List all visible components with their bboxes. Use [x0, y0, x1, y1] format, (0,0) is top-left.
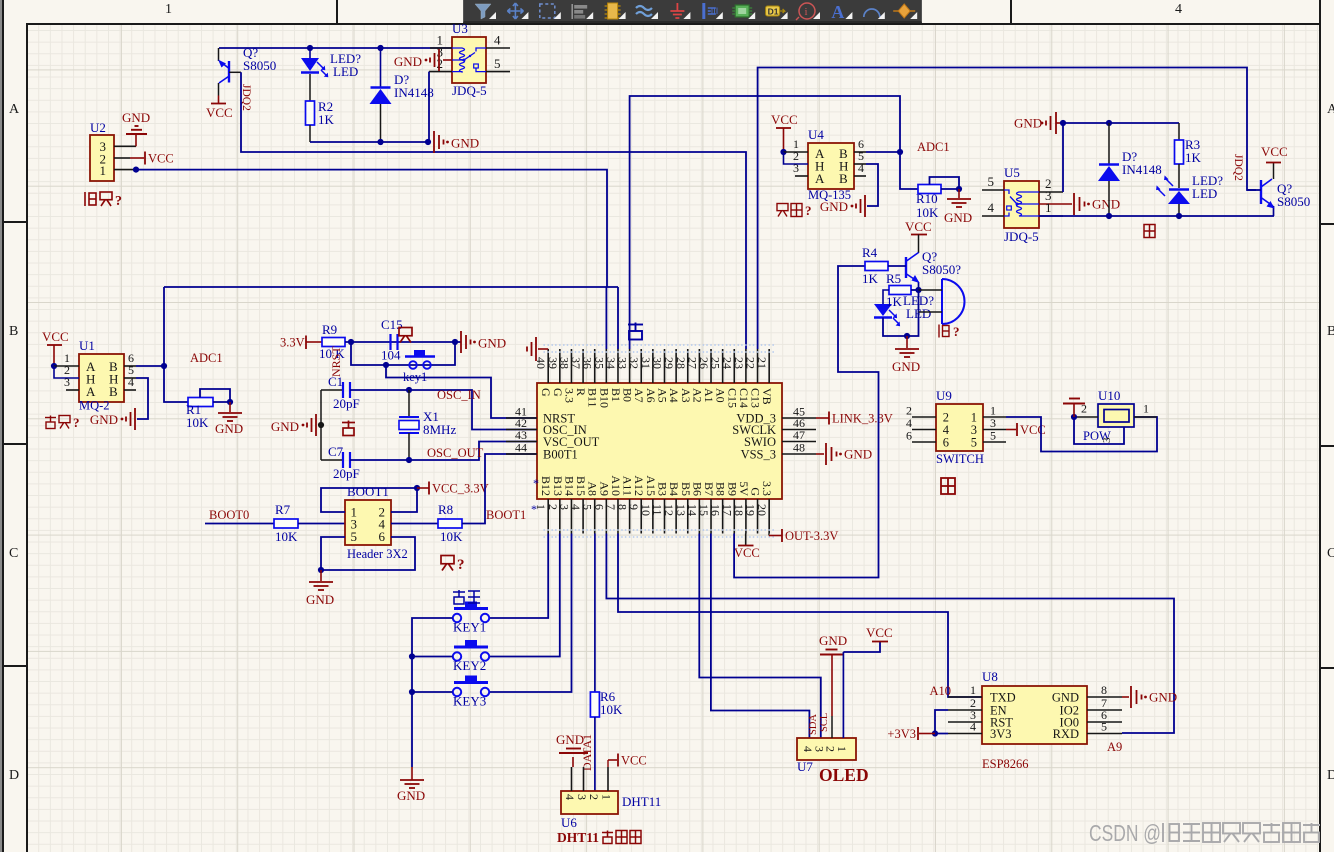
svg-text:SDA: SDA	[808, 714, 819, 735]
svg-text:VCC_3.3V: VCC_3.3V	[432, 482, 489, 496]
svg-text:1: 1	[970, 683, 976, 697]
svg-text:JDQ2: JDQ2	[1232, 154, 1244, 181]
svg-text:*: *	[531, 502, 537, 516]
svg-text:MQ-2: MQ-2	[79, 399, 110, 413]
svg-text:B00T1: B00T1	[543, 448, 578, 462]
svg-text:GND: GND	[819, 633, 847, 648]
svg-text:GND: GND	[394, 54, 422, 69]
svg-text:GND: GND	[122, 110, 150, 125]
svg-text:KEY3: KEY3	[453, 694, 486, 709]
svg-text:U7: U7	[797, 759, 813, 774]
svg-text:U2: U2	[90, 120, 106, 135]
svg-text:IN4148: IN4148	[394, 85, 434, 100]
svg-text:R9: R9	[322, 322, 337, 337]
svg-text:LINK_3.3V: LINK_3.3V	[832, 412, 893, 426]
svg-text:104: 104	[381, 348, 401, 363]
svg-text:1K: 1K	[318, 112, 335, 127]
svg-text:VCC: VCC	[1261, 144, 1288, 159]
svg-text:CSDN @: CSDN @	[1089, 820, 1161, 846]
svg-text:4: 4	[128, 375, 134, 389]
svg-text:SWITCH: SWITCH	[936, 452, 984, 466]
svg-text:1K: 1K	[886, 294, 903, 309]
svg-text:DHT11: DHT11	[557, 830, 599, 845]
svg-text:C7: C7	[328, 444, 344, 459]
svg-text:5: 5	[494, 56, 501, 71]
svg-text:GND: GND	[90, 412, 118, 427]
svg-text:20: 20	[755, 504, 769, 516]
svg-text:VCC: VCC	[621, 754, 647, 768]
svg-text:GND: GND	[1052, 691, 1079, 705]
svg-text:6: 6	[379, 529, 386, 544]
svg-text:i: i	[805, 6, 808, 18]
svg-text:3: 3	[1101, 437, 1113, 443]
svg-text:GND: GND	[944, 210, 972, 225]
svg-text:Header 3X2: Header 3X2	[347, 547, 408, 561]
svg-text:BOOT1: BOOT1	[486, 508, 526, 522]
svg-text:JDQ-5: JDQ-5	[452, 83, 487, 98]
svg-text:1: 1	[600, 794, 614, 800]
svg-text:GND: GND	[1014, 116, 1042, 131]
svg-text:OLED: OLED	[819, 765, 869, 785]
svg-text:10K: 10K	[275, 529, 298, 544]
svg-text:+3V3: +3V3	[887, 727, 916, 741]
svg-text:44: 44	[515, 441, 527, 455]
svg-text:5: 5	[351, 529, 358, 544]
svg-text:KEY2: KEY2	[453, 658, 486, 673]
svg-text:10K: 10K	[440, 529, 463, 544]
svg-text:ADC1: ADC1	[917, 140, 950, 154]
svg-text:2: 2	[587, 794, 601, 800]
svg-text:GND: GND	[306, 592, 334, 607]
svg-text:3: 3	[64, 375, 70, 389]
svg-text:VCC: VCC	[771, 112, 798, 127]
svg-text:U3: U3	[452, 21, 468, 36]
svg-text:VCC: VCC	[148, 152, 174, 166]
svg-text:GND: GND	[451, 136, 479, 151]
svg-text:48: 48	[793, 441, 805, 455]
svg-text:4: 4	[970, 720, 976, 734]
svg-text:JDQ-5: JDQ-5	[1004, 229, 1039, 244]
svg-text:A10: A10	[929, 684, 951, 698]
svg-text:LED: LED	[1192, 186, 1217, 201]
svg-text:SCL: SCL	[819, 713, 830, 732]
svg-text:GND: GND	[1149, 690, 1177, 705]
svg-text:R10: R10	[916, 191, 938, 206]
svg-text:VCC: VCC	[866, 625, 893, 640]
svg-text:BOOT1: BOOT1	[347, 484, 389, 499]
svg-text:A: A	[831, 2, 844, 21]
svg-text:D1: D1	[768, 7, 779, 17]
svg-text:C1: C1	[328, 374, 343, 389]
svg-text:VCC: VCC	[42, 329, 69, 344]
svg-text:U5: U5	[1004, 165, 1020, 180]
svg-text:VB: VB	[760, 388, 774, 405]
svg-text:1: 1	[100, 163, 107, 178]
svg-text:NRST: NRST	[329, 346, 343, 377]
svg-text:R8: R8	[438, 502, 453, 517]
svg-text:4: 4	[494, 33, 501, 48]
svg-text:4: 4	[858, 161, 864, 175]
svg-text:4: 4	[563, 794, 577, 800]
svg-text:U9: U9	[936, 388, 952, 403]
svg-text:S8050: S8050	[1277, 194, 1310, 209]
svg-text:20pF: 20pF	[333, 466, 360, 481]
svg-text:5: 5	[1101, 720, 1107, 734]
svg-text:3: 3	[575, 794, 589, 800]
svg-text:GND: GND	[820, 199, 848, 214]
svg-text:21: 21	[755, 357, 769, 369]
svg-text:DHT11: DHT11	[622, 794, 661, 809]
svg-text:?: ?	[457, 557, 465, 573]
svg-text:RXD: RXD	[1053, 727, 1079, 741]
svg-text:8MHz: 8MHz	[423, 422, 456, 437]
svg-text:GND: GND	[478, 336, 506, 351]
svg-text:1: 1	[835, 746, 849, 752]
svg-text:ADC1: ADC1	[190, 351, 223, 365]
svg-text:B: B	[839, 171, 848, 186]
svg-text:10K: 10K	[916, 205, 939, 220]
svg-text:U4: U4	[808, 127, 824, 142]
svg-text:GND: GND	[844, 447, 872, 462]
svg-text:?: ?	[115, 194, 122, 209]
svg-text:10K: 10K	[186, 415, 209, 430]
svg-text:TXD: TXD	[990, 691, 1016, 705]
svg-text:S8050: S8050	[243, 58, 276, 73]
svg-text:LED: LED	[333, 64, 358, 79]
svg-text:U1: U1	[79, 338, 95, 353]
svg-text:R7: R7	[275, 502, 291, 517]
svg-text:B: B	[109, 384, 118, 399]
svg-text:ESP8266: ESP8266	[982, 757, 1029, 771]
svg-text:OSC_IN: OSC_IN	[437, 388, 481, 402]
svg-text:5: 5	[990, 429, 996, 443]
svg-text:A9: A9	[1107, 740, 1122, 754]
svg-text:GND: GND	[556, 732, 584, 747]
svg-text:GND: GND	[397, 788, 425, 803]
svg-text:OSC_OUT: OSC_OUT	[427, 446, 484, 460]
svg-text:GND: GND	[892, 359, 920, 374]
svg-text:A: A	[815, 171, 825, 186]
svg-text:OUT-3.3V: OUT-3.3V	[785, 529, 838, 543]
svg-text:GND: GND	[271, 419, 299, 434]
svg-text:-III: -III	[708, 6, 719, 16]
svg-text:3.3V: 3.3V	[280, 336, 305, 350]
svg-text:1: 1	[1045, 200, 1052, 215]
svg-text:6: 6	[943, 436, 949, 450]
svg-text:S8050?: S8050?	[922, 262, 961, 277]
svg-text:U8: U8	[982, 669, 998, 684]
svg-text:*: *	[533, 476, 539, 490]
svg-text:GND: GND	[215, 421, 243, 436]
svg-text:VCC: VCC	[206, 105, 233, 120]
svg-text:VSS_3: VSS_3	[741, 448, 776, 462]
svg-text:R4: R4	[862, 245, 878, 260]
svg-text:3.3: 3.3	[760, 481, 774, 496]
svg-text:5: 5	[971, 436, 977, 450]
svg-text:KEY1: KEY1	[453, 620, 486, 635]
svg-text:U6: U6	[561, 815, 577, 830]
svg-text:U10: U10	[1098, 388, 1120, 403]
svg-text:A: A	[86, 384, 96, 399]
svg-text:1K: 1K	[862, 271, 879, 286]
svg-text:?: ?	[73, 415, 80, 430]
svg-text:4: 4	[988, 200, 995, 215]
svg-text:?: ?	[953, 324, 960, 339]
svg-text:6: 6	[906, 429, 912, 443]
svg-text:GND: GND	[1092, 197, 1120, 212]
svg-text:1K: 1K	[1185, 150, 1202, 165]
svg-text:IN4148: IN4148	[1122, 162, 1162, 177]
svg-text:?: ?	[805, 203, 812, 218]
svg-text:VCC: VCC	[734, 546, 760, 560]
svg-text:R5: R5	[886, 271, 901, 286]
svg-text:3: 3	[793, 161, 799, 175]
svg-text:BOOT0: BOOT0	[209, 508, 249, 522]
svg-text:5: 5	[988, 174, 995, 189]
svg-text:VCC: VCC	[905, 219, 932, 234]
svg-text:1: 1	[1143, 402, 1149, 416]
svg-text:20pF: 20pF	[333, 396, 360, 411]
svg-text:10K: 10K	[600, 702, 623, 717]
svg-text:3V3: 3V3	[990, 727, 1012, 741]
svg-text:8: 8	[1101, 683, 1107, 697]
